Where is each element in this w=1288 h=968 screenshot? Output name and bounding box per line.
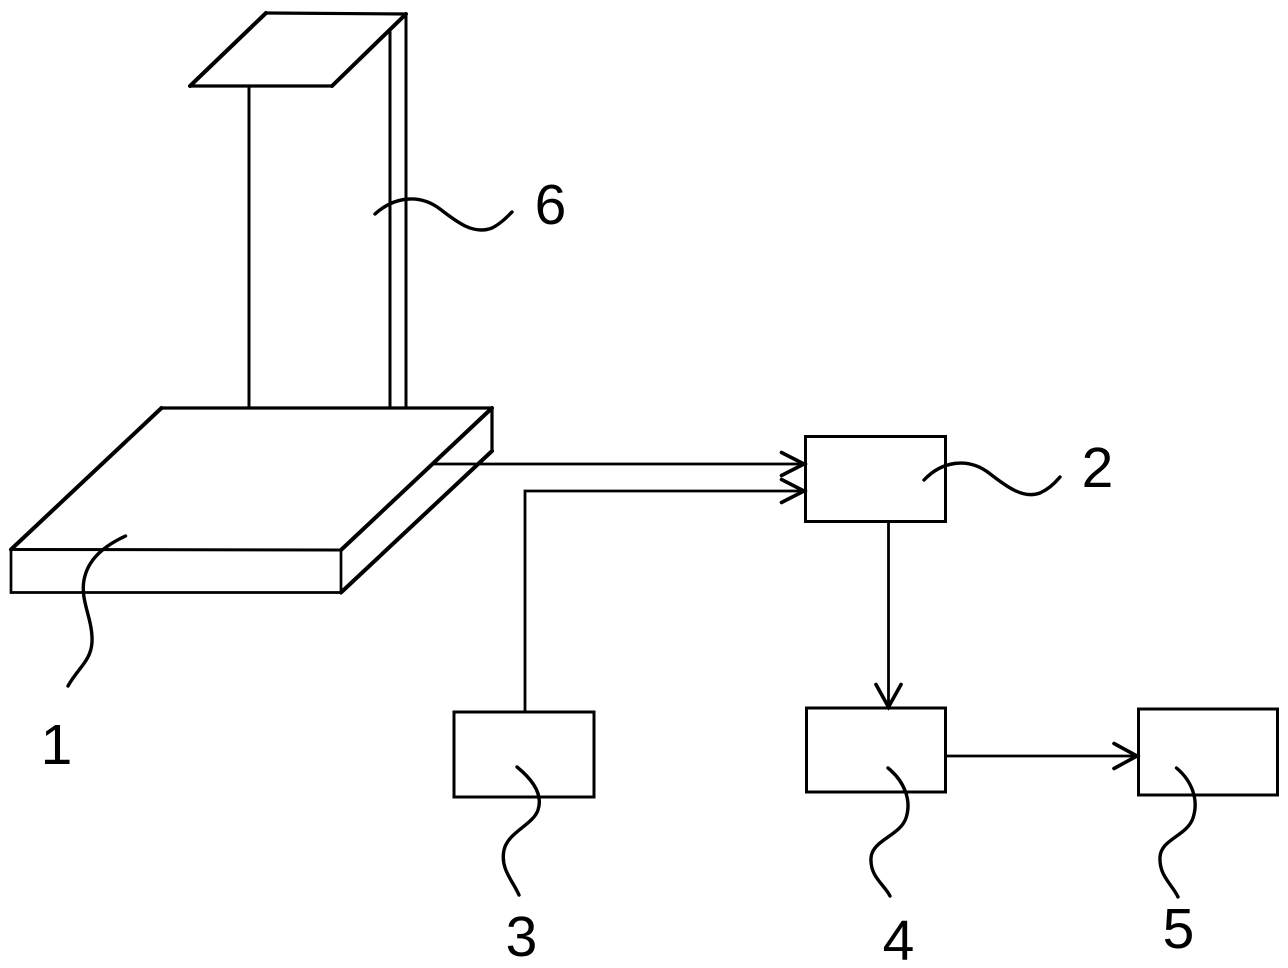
platform 1 right face [341,408,492,593]
svg-text:2: 2 [1082,436,1114,500]
leader squiggle for label 1 [68,536,126,686]
platform 1 top face [11,408,492,550]
wire box 2 to box 4 [887,522,890,706]
arrowhead into box 2 upper [782,453,805,476]
arrowhead into box 4 [876,685,901,708]
svg-text:3: 3 [506,905,538,968]
leader squiggle for label 3 [503,767,539,895]
leader squiggle for label 6 [375,199,512,230]
platform 1 front face [11,550,341,593]
box 5 [1139,709,1278,795]
svg-text:4: 4 [883,909,915,968]
box 2 [806,437,946,522]
leader squiggle for label 4 [871,768,908,896]
leader squiggle for label 5 [1160,768,1195,897]
svg-text:1: 1 [41,713,73,777]
wire box 4 to box 5 [946,755,1137,758]
svg-text:5: 5 [1163,897,1195,961]
column 6 right inner edge [389,32,392,407]
wire platform to box 2 (upper) [434,463,804,466]
top plate (flag) of column 6 [190,13,406,86]
leader squiggle for label 2 [924,463,1060,495]
box 3 [454,712,594,797]
column 6 left edge [248,86,251,407]
arrowhead into box 5 [1114,744,1137,769]
box 4 [807,708,946,792]
column 6 right outer edge [405,14,408,407]
arrowhead into box 2 lower [782,480,805,503]
wire box 3 to box 2 (corner polyline) [525,491,804,711]
svg-text:6: 6 [535,173,567,237]
